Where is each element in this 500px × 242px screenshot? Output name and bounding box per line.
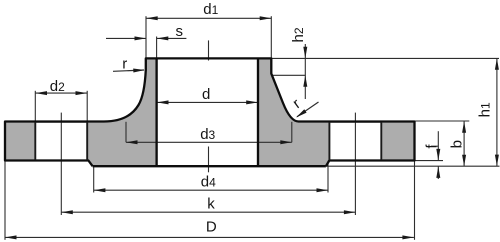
svg-text:r: r	[122, 55, 127, 72]
svg-text:b: b	[448, 140, 465, 148]
svg-text:h2: h2	[290, 27, 307, 42]
svg-text:d3: d3	[200, 126, 215, 143]
svg-text:d2: d2	[50, 78, 65, 95]
svg-text:d: d	[202, 86, 210, 103]
svg-text:D: D	[206, 219, 217, 236]
svg-text:d1: d1	[203, 1, 218, 18]
svg-text:k: k	[207, 196, 215, 213]
svg-text:d4: d4	[201, 174, 216, 191]
svg-text:s: s	[176, 23, 184, 40]
svg-text:h1: h1	[477, 102, 494, 117]
